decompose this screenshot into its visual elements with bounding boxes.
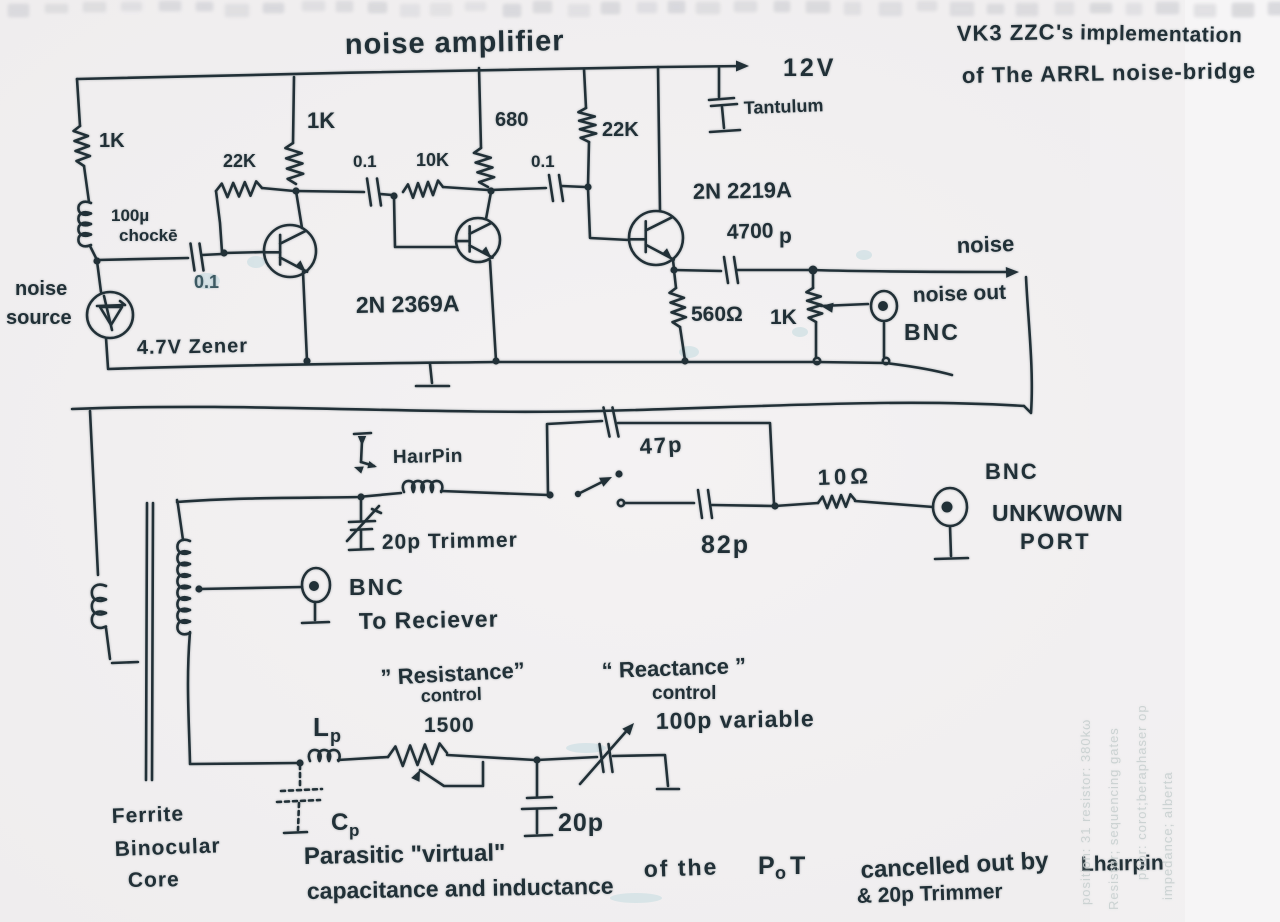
terminal bar (stub) [657,788,679,791]
capacitor 20p [536,762,539,796]
wire: cap to base node [202,254,222,255]
transistor Q3 2N2219A [629,211,683,265]
wire: rail to R 680 [479,68,481,148]
wire: BNC stem [883,323,886,357]
capacitor 47p [604,408,619,437]
wire: node to zener [97,261,101,292]
node: 560 at rail [681,357,688,364]
capacitor 0.1 (third) [549,175,563,201]
node: Q1 collector node [292,187,299,194]
wire: 82p to node [712,505,773,506]
resistor R 10ohm [818,494,855,508]
wire: Q3 base drop [588,188,629,240]
capacitor 82p [698,490,712,518]
terminal: BNC at rail [883,358,889,364]
wire: bridge top [177,493,401,502]
wire: Lp to pot [338,757,388,760]
faint marker smudges [194,250,872,903]
wire: BNC receiver stem [314,602,317,620]
pot wiper arrow [821,303,834,313]
inductor Lp [309,750,340,761]
potentiometer 1K [806,288,822,322]
wire: amp bottom rail [108,362,952,375]
arrowhead 12V rail [736,61,749,72]
wire: zener to bottom rail [106,338,108,368]
wire: 10ohm to BNC [855,501,933,507]
switch throw B [618,500,624,506]
wire: rail to R 1K (second) [293,77,294,143]
terminal bar (BNC unknown) [935,558,968,559]
wire: secondary bottom lead [188,632,190,763]
ferrite core line 1 [146,503,147,780]
wire: secondary top lead [177,500,183,540]
arrow through 100p [580,727,630,784]
node: Q2 base node [390,192,397,199]
wire: BNC unknown stem [950,526,951,556]
wire: cap to 10K [380,194,392,195]
resistor R 22K (first) [216,181,262,197]
inductor 100u choke [78,202,91,247]
wire: collector node to Q1 [296,191,302,228]
switch pole dot [575,491,581,497]
wire: 22K to node [588,142,589,186]
capacitor 4700p [724,257,738,283]
wire: coil to switch node [441,491,548,495]
terminal: pot at rail [814,358,820,364]
wire: node to 10ohm [775,503,818,506]
capacitor 0.1 (input) [191,244,204,271]
pot 1500 wiper [411,770,420,782]
wire: 100p to stub [613,755,668,786]
inductor left pigtail coil [92,585,106,628]
wire: pot to rail [815,322,818,358]
connector BNC to receiver [302,568,330,602]
node: 47p join [771,502,778,509]
transistor Q1 2N2369A [264,225,316,277]
wire: node to 100p [537,757,597,760]
wire: cap to 22K node [562,186,585,187]
node: Q3 base node [584,183,591,190]
resistor R 1K (second) [285,143,303,184]
node: output node [809,266,818,275]
resistor R 560 [670,288,687,327]
capacitor 100p variable [600,744,613,772]
zener D1 circle [87,292,133,338]
switch throw A [615,470,622,477]
wire: rail to Q3 collector [658,67,660,211]
wire: Q2 base drop [394,197,456,247]
connector BNC unknown port [933,488,967,526]
wire: node to 0.1 cap [97,258,188,260]
wire: node to 0.1 cap (second) [296,191,364,192]
potentiometer 1500 [388,744,447,767]
capacitor 0.1 (second) [367,179,381,206]
wire: emitter node to 4700p [674,270,721,271]
wire: collector node to Q2 [486,192,491,219]
wire: left branch from rail [77,79,80,126]
wire: Q3 emitter to node [673,260,674,269]
node: switch common [546,491,553,498]
wire: R to choke [84,166,89,202]
wire: choke to node [90,246,97,260]
faint print-through text [1078,704,1175,910]
node: Q2 collector node [487,187,494,194]
capacitor tantalum [709,98,734,100]
connector BNC noise out [871,291,897,321]
boundary: wavy module edge [72,403,1024,412]
arrowhead noise [1006,267,1019,278]
wire: 10K to 680 node [443,187,488,190]
capacitor Cp (dashed parasitic) [277,765,322,830]
node: noise source junction [93,257,100,264]
node: Cp node [296,759,303,766]
resistor R 10K [403,181,443,198]
ground symbol (amp) [430,364,432,383]
wire: 4700p to pot node [737,269,811,272]
wire: 47p to right leg [618,423,774,504]
wire: switch B to 82p [624,502,694,505]
faded print-through strip at top edge [8,1,1280,17]
wire: node to pot [812,272,815,288]
ferrite core line 2 [152,503,153,780]
zener D1 symbol [97,301,125,306]
terminal bar (pigtail) [112,662,138,663]
boundary: right edge to noise arrow [1024,277,1032,413]
wire: noise output line [813,270,1014,272]
wire: 560 to rail [680,327,685,360]
resistor R 680 [474,148,494,187]
node: Q3 emitter node [670,266,677,273]
wire: pigtail end [106,628,110,659]
wire: tap to BNC [199,587,302,589]
node: Q1 emitter at rail [303,357,310,364]
wire: left pigtail [90,411,98,575]
hairpin marker symbol [361,441,362,462]
node: 20p node [533,756,540,763]
inductor L hairpin [403,481,443,492]
wire: pot to 20p node [447,755,535,760]
wire: node to 0.1 cap (third) [491,188,546,190]
wire: rail to tantalum [718,68,721,97]
wire: base node to Q1 [224,252,265,253]
wire: 22K left leg down [216,191,222,252]
transistor Q2 2N2369A [456,218,500,262]
node: Q1 base node [220,249,227,256]
wire: Q2 emitter down [490,261,496,361]
trimmer 20p symbol [360,497,363,520]
switch arm [578,480,606,494]
inductor transformer secondary [177,540,190,635]
resistor R 22K (second) [578,108,596,142]
wire: 47p branch [547,421,602,495]
wire: bridge bottom left [190,763,297,764]
node: secondary centre tap [195,585,202,592]
wire: 22K to node [262,188,294,191]
resistor R 1K (left) [74,126,91,166]
terminal bar (BNC receiver) [302,622,329,623]
wire: emitter node down [674,270,676,288]
wire: Q1 emitter down [303,272,307,361]
node: trimmer junction [357,493,364,500]
node: Q2 emitter at rail [492,357,499,364]
wire: rail to R 22K (second) [584,69,586,108]
wire: +12V top rail [77,66,745,79]
